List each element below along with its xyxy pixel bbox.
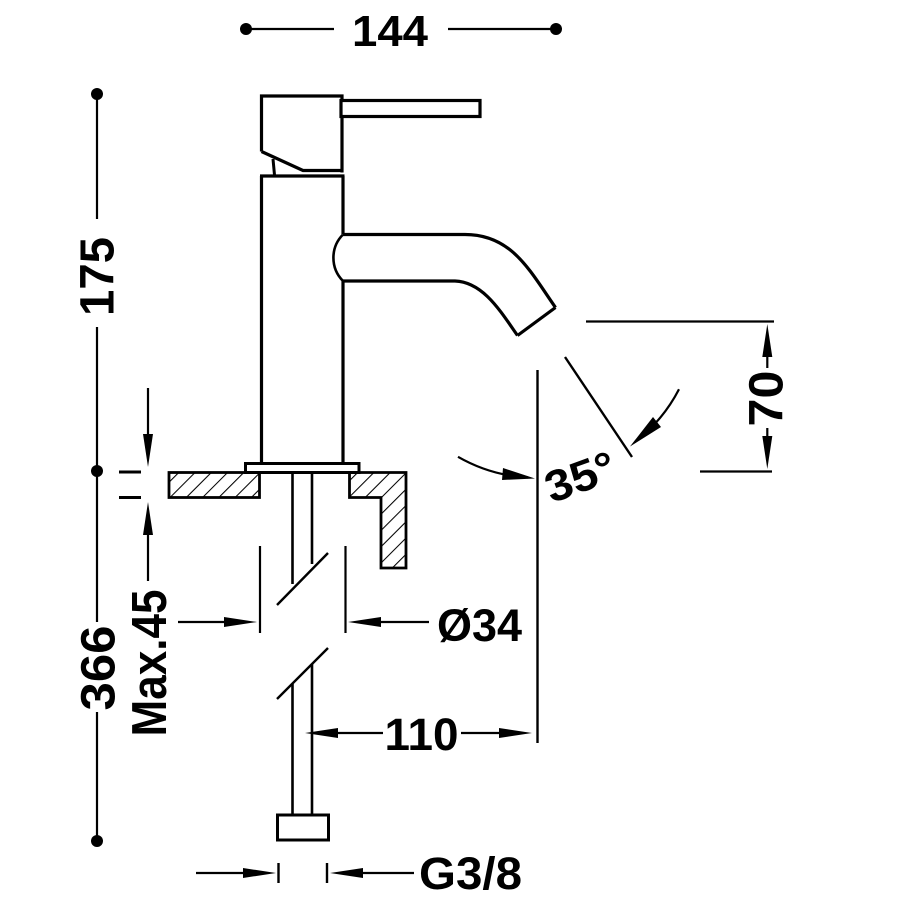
dim Max.45 down arrow <box>143 388 153 467</box>
dim 175 line lower <box>96 327 98 466</box>
dim Max.45 dash top <box>119 471 141 474</box>
dim 35 vertical reference line <box>536 370 538 743</box>
dim 366 line upper <box>96 476 98 622</box>
dim 366 label <box>73 626 126 711</box>
pipe break upper <box>277 553 328 605</box>
dim 110 left arrow <box>305 728 383 738</box>
faucet head inner tick <box>273 159 275 175</box>
dim Max.45 label <box>123 590 177 737</box>
spout top outline <box>343 235 556 308</box>
svg-text:110: 110 <box>385 709 459 760</box>
dim 35 left arc <box>458 457 535 480</box>
countertop left section <box>169 473 260 498</box>
dim 110 right arrow <box>461 728 532 738</box>
dim 144 left dot <box>240 23 252 35</box>
dim G3/8 right tick <box>326 863 328 883</box>
dim 175 label <box>72 237 125 316</box>
dim G3/8 left arrow <box>196 868 276 878</box>
dim 366 bottom dot <box>91 835 103 847</box>
spout tip face <box>518 308 556 336</box>
supply nut <box>278 815 329 840</box>
dim 144 right dot <box>550 23 562 35</box>
dim O34 left arrow <box>178 617 257 627</box>
dim 144 line left <box>250 28 334 30</box>
spout back arc <box>333 235 343 282</box>
faucet body top edge <box>260 174 345 177</box>
dim O34 right arrow <box>348 617 429 627</box>
dim 175 top dot <box>91 88 103 100</box>
pipe break lower <box>277 648 328 699</box>
svg-text:G3/8: G3/8 <box>419 848 522 899</box>
svg-text:Ø34: Ø34 <box>437 600 522 651</box>
faucet body right edge upper <box>341 176 344 234</box>
dim 35 slant reference line <box>565 357 632 457</box>
svg-text:Max.45: Max.45 <box>123 590 177 737</box>
dim 70 label <box>741 371 794 427</box>
dim 70 up arrow <box>762 324 772 368</box>
countertop right section <box>350 473 407 569</box>
dim O34 right extension line <box>344 546 346 633</box>
dim 70 bottom reference line <box>700 470 772 472</box>
dim G3/8 left tick <box>277 863 279 883</box>
dim O34 left extension line <box>259 546 261 633</box>
svg-text:366: 366 <box>73 626 126 711</box>
dim 70 top reference line <box>586 320 774 322</box>
dim 35 right arc <box>630 389 679 446</box>
faucet body left edge <box>260 176 263 463</box>
svg-text:70: 70 <box>741 371 794 427</box>
faucet head <box>262 96 344 173</box>
faucet body right edge lower <box>341 281 344 463</box>
dim 144 line right <box>448 28 552 30</box>
shank left line lower <box>291 684 294 816</box>
shank left line upper <box>291 473 294 584</box>
svg-text:175: 175 <box>72 237 125 316</box>
shank right line upper <box>311 473 314 564</box>
base flange <box>246 464 360 473</box>
dim G3/8 right arrow <box>330 868 414 878</box>
spout bottom outline <box>343 281 518 336</box>
dim Max.45 up arrow <box>143 502 153 581</box>
shank right line lower <box>311 664 314 816</box>
dim 70 down arrow <box>762 428 772 469</box>
svg-text:144: 144 <box>352 7 429 56</box>
dim Max.45 dash bottom <box>119 496 141 499</box>
lever handle <box>341 101 480 117</box>
dim 35 label <box>538 442 622 513</box>
dim 366 line lower <box>96 712 98 836</box>
dim 175/366 shared dot <box>91 465 103 477</box>
dim 175 line upper <box>96 98 98 219</box>
